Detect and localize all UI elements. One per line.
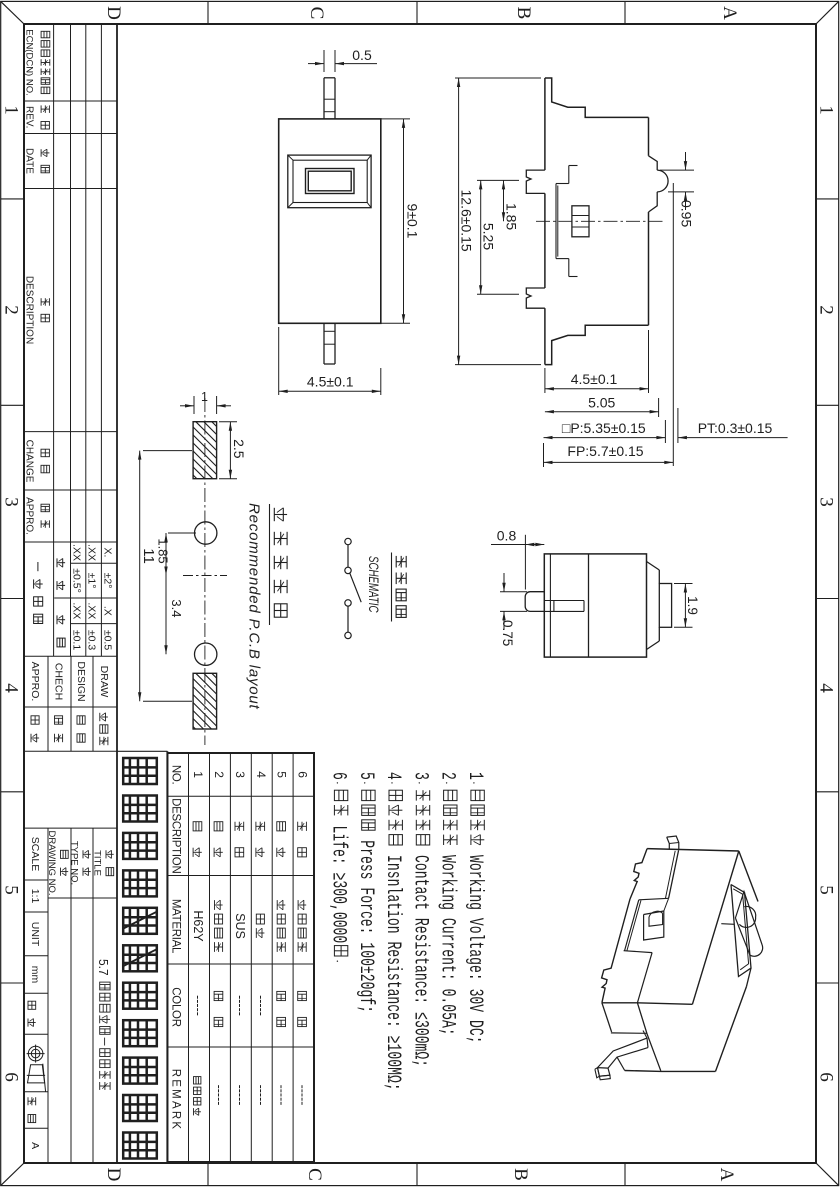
svg-text:DRAW: DRAW xyxy=(98,666,110,698)
svg-text:3.4: 3.4 xyxy=(169,599,184,617)
svg-text:5.25: 5.25 xyxy=(481,223,497,250)
svg-text:±1°: ±1° xyxy=(86,573,98,589)
svg-text:REV.: REV. xyxy=(24,106,35,128)
svg-text:A: A xyxy=(29,1142,41,1149)
svg-text:5.7: 5.7 xyxy=(96,959,111,976)
svg-text:APPRO.: APPRO. xyxy=(29,662,41,702)
svg-text:11: 11 xyxy=(140,548,157,564)
svg-text:Working Voltage: 30V DC;: Working Voltage: 30V DC; xyxy=(463,847,485,1043)
svg-text:1: 1 xyxy=(463,772,485,780)
svg-text:4.5±0.1: 4.5±0.1 xyxy=(307,374,354,390)
svg-text:3: 3 xyxy=(816,497,837,507)
svg-text:Insnlation Resistance: ≥100MΩ;: Insnlation Resistance: ≥100MΩ; xyxy=(381,847,403,1090)
svg-text:1: 1 xyxy=(816,105,837,115)
svg-text:mm: mm xyxy=(29,966,41,984)
svg-text:4: 4 xyxy=(254,771,268,778)
svg-text:±2°: ±2° xyxy=(101,573,113,589)
svg-text:DATE: DATE xyxy=(24,148,35,174)
svg-text:1: 1 xyxy=(1,105,22,115)
svg-text:DESIGN: DESIGN xyxy=(75,661,87,701)
svg-text:FP:5.7±0.15: FP:5.7±0.15 xyxy=(567,443,643,459)
svg-text:Press Force: 100±20gf;: Press Force: 100±20gf; xyxy=(354,832,376,1013)
svg-text:2: 2 xyxy=(1,305,22,315)
svg-text:ECN(DCN) NO.: ECN(DCN) NO. xyxy=(24,29,35,96)
svg-text:SCHEMATIC: SCHEMATIC xyxy=(366,556,381,613)
svg-text:5: 5 xyxy=(1,885,22,895)
svg-text:DESCRIPTION: DESCRIPTION xyxy=(170,798,182,873)
svg-text:1.85: 1.85 xyxy=(504,203,520,230)
svg-text:.XX: .XX xyxy=(70,544,82,561)
svg-text:NO.: NO. xyxy=(170,765,182,785)
svg-text:DRAWING NO.: DRAWING NO. xyxy=(46,830,57,895)
svg-text:TITLE: TITLE xyxy=(92,850,103,876)
svg-text:5: 5 xyxy=(275,771,289,778)
svg-text:0.75: 0.75 xyxy=(500,620,515,646)
svg-text:□P:5.35±0.15: □P:5.35±0.15 xyxy=(562,420,646,436)
svg-text:4: 4 xyxy=(1,683,22,693)
svg-text:TYPE NO.: TYPE NO. xyxy=(69,841,80,885)
svg-text:2.5: 2.5 xyxy=(231,439,247,459)
svg-text:D: D xyxy=(103,6,124,20)
svg-text:Life: ≥300,0000: Life: ≥300,0000 xyxy=(326,818,348,944)
svg-text:SUS: SUS xyxy=(233,913,247,939)
svg-text:6: 6 xyxy=(1,1072,22,1082)
svg-text:-----: ----- xyxy=(191,995,205,1016)
svg-text:C: C xyxy=(304,1168,325,1181)
svg-text:.XX: .XX xyxy=(86,602,98,619)
svg-text:B: B xyxy=(510,1168,531,1181)
svg-text:4.5±0.1: 4.5±0.1 xyxy=(571,371,618,387)
svg-text:C: C xyxy=(306,7,327,20)
svg-text:12.6±0.15: 12.6±0.15 xyxy=(459,190,475,252)
svg-text:6: 6 xyxy=(816,1072,837,1082)
svg-text:-----: ----- xyxy=(254,995,268,1016)
svg-text:1:1: 1:1 xyxy=(29,889,41,904)
svg-text:UNIT: UNIT xyxy=(29,922,41,947)
svg-text:X.: X. xyxy=(101,548,113,558)
svg-text:PT:0.3±0.15: PT:0.3±0.15 xyxy=(698,420,773,436)
svg-text:1: 1 xyxy=(191,771,205,778)
svg-text:.XX: .XX xyxy=(70,602,82,619)
svg-text:9±0.1: 9±0.1 xyxy=(405,204,421,239)
svg-text:-----: ----- xyxy=(296,1085,310,1106)
svg-text:0.5: 0.5 xyxy=(352,47,372,63)
svg-text:-----: ----- xyxy=(233,995,247,1016)
svg-text:5.05: 5.05 xyxy=(588,395,615,411)
svg-text:2: 2 xyxy=(212,771,226,778)
svg-text:B: B xyxy=(513,7,534,20)
svg-text:DESCRIPTION: DESCRIPTION xyxy=(24,276,35,344)
svg-text:3: 3 xyxy=(408,772,430,780)
svg-text:6: 6 xyxy=(296,771,310,778)
svg-text:-----: ----- xyxy=(233,1085,247,1106)
svg-text:6: 6 xyxy=(326,772,348,780)
svg-text:REMARK: REMARK xyxy=(170,1069,182,1131)
svg-text:3: 3 xyxy=(1,497,22,507)
svg-text:COLOR: COLOR xyxy=(170,987,182,1026)
svg-text:MATERIAL: MATERIAL xyxy=(170,899,182,954)
svg-text:±0.1: ±0.1 xyxy=(70,630,82,651)
svg-text:CHANGE: CHANGE xyxy=(24,440,35,483)
svg-text:3: 3 xyxy=(233,771,247,778)
svg-text:Working Current: 0.05A;: Working Current: 0.05A; xyxy=(436,847,458,1036)
svg-text:-----: ----- xyxy=(212,1085,226,1106)
svg-text:1.9: 1.9 xyxy=(685,596,700,615)
svg-text:2: 2 xyxy=(436,772,458,780)
svg-text:Contact Resistance: ≤300mΩ;: Contact Resistance: ≤300mΩ; xyxy=(408,847,430,1067)
svg-text:Recommended P.C.B layout: Recommended P.C.B layout xyxy=(246,503,263,710)
svg-text:.XX: .XX xyxy=(86,544,98,561)
svg-text:±0.3: ±0.3 xyxy=(86,630,98,651)
svg-text:APPRO.: APPRO. xyxy=(24,497,35,535)
svg-text:±0.5°: ±0.5° xyxy=(70,568,82,593)
svg-text:4: 4 xyxy=(381,772,403,780)
svg-text:A: A xyxy=(716,1168,737,1182)
svg-text:D: D xyxy=(103,1168,124,1182)
svg-text:0.95: 0.95 xyxy=(679,200,695,227)
svg-text:H62Y: H62Y xyxy=(191,910,205,942)
svg-text:0.8: 0.8 xyxy=(497,528,517,544)
svg-text:CHECH: CHECH xyxy=(53,663,65,700)
svg-text:.X: .X xyxy=(101,606,113,616)
svg-text:5: 5 xyxy=(816,885,837,895)
svg-text:A: A xyxy=(719,6,740,20)
svg-text:4: 4 xyxy=(816,683,837,693)
svg-text:2: 2 xyxy=(816,305,837,315)
svg-text:±0.5: ±0.5 xyxy=(101,630,113,651)
svg-text:1: 1 xyxy=(201,390,208,404)
svg-text:-----: ----- xyxy=(254,1085,268,1106)
svg-text:SCALE: SCALE xyxy=(29,837,41,871)
svg-text:-----: ----- xyxy=(275,1085,289,1106)
svg-text:5: 5 xyxy=(354,772,376,780)
